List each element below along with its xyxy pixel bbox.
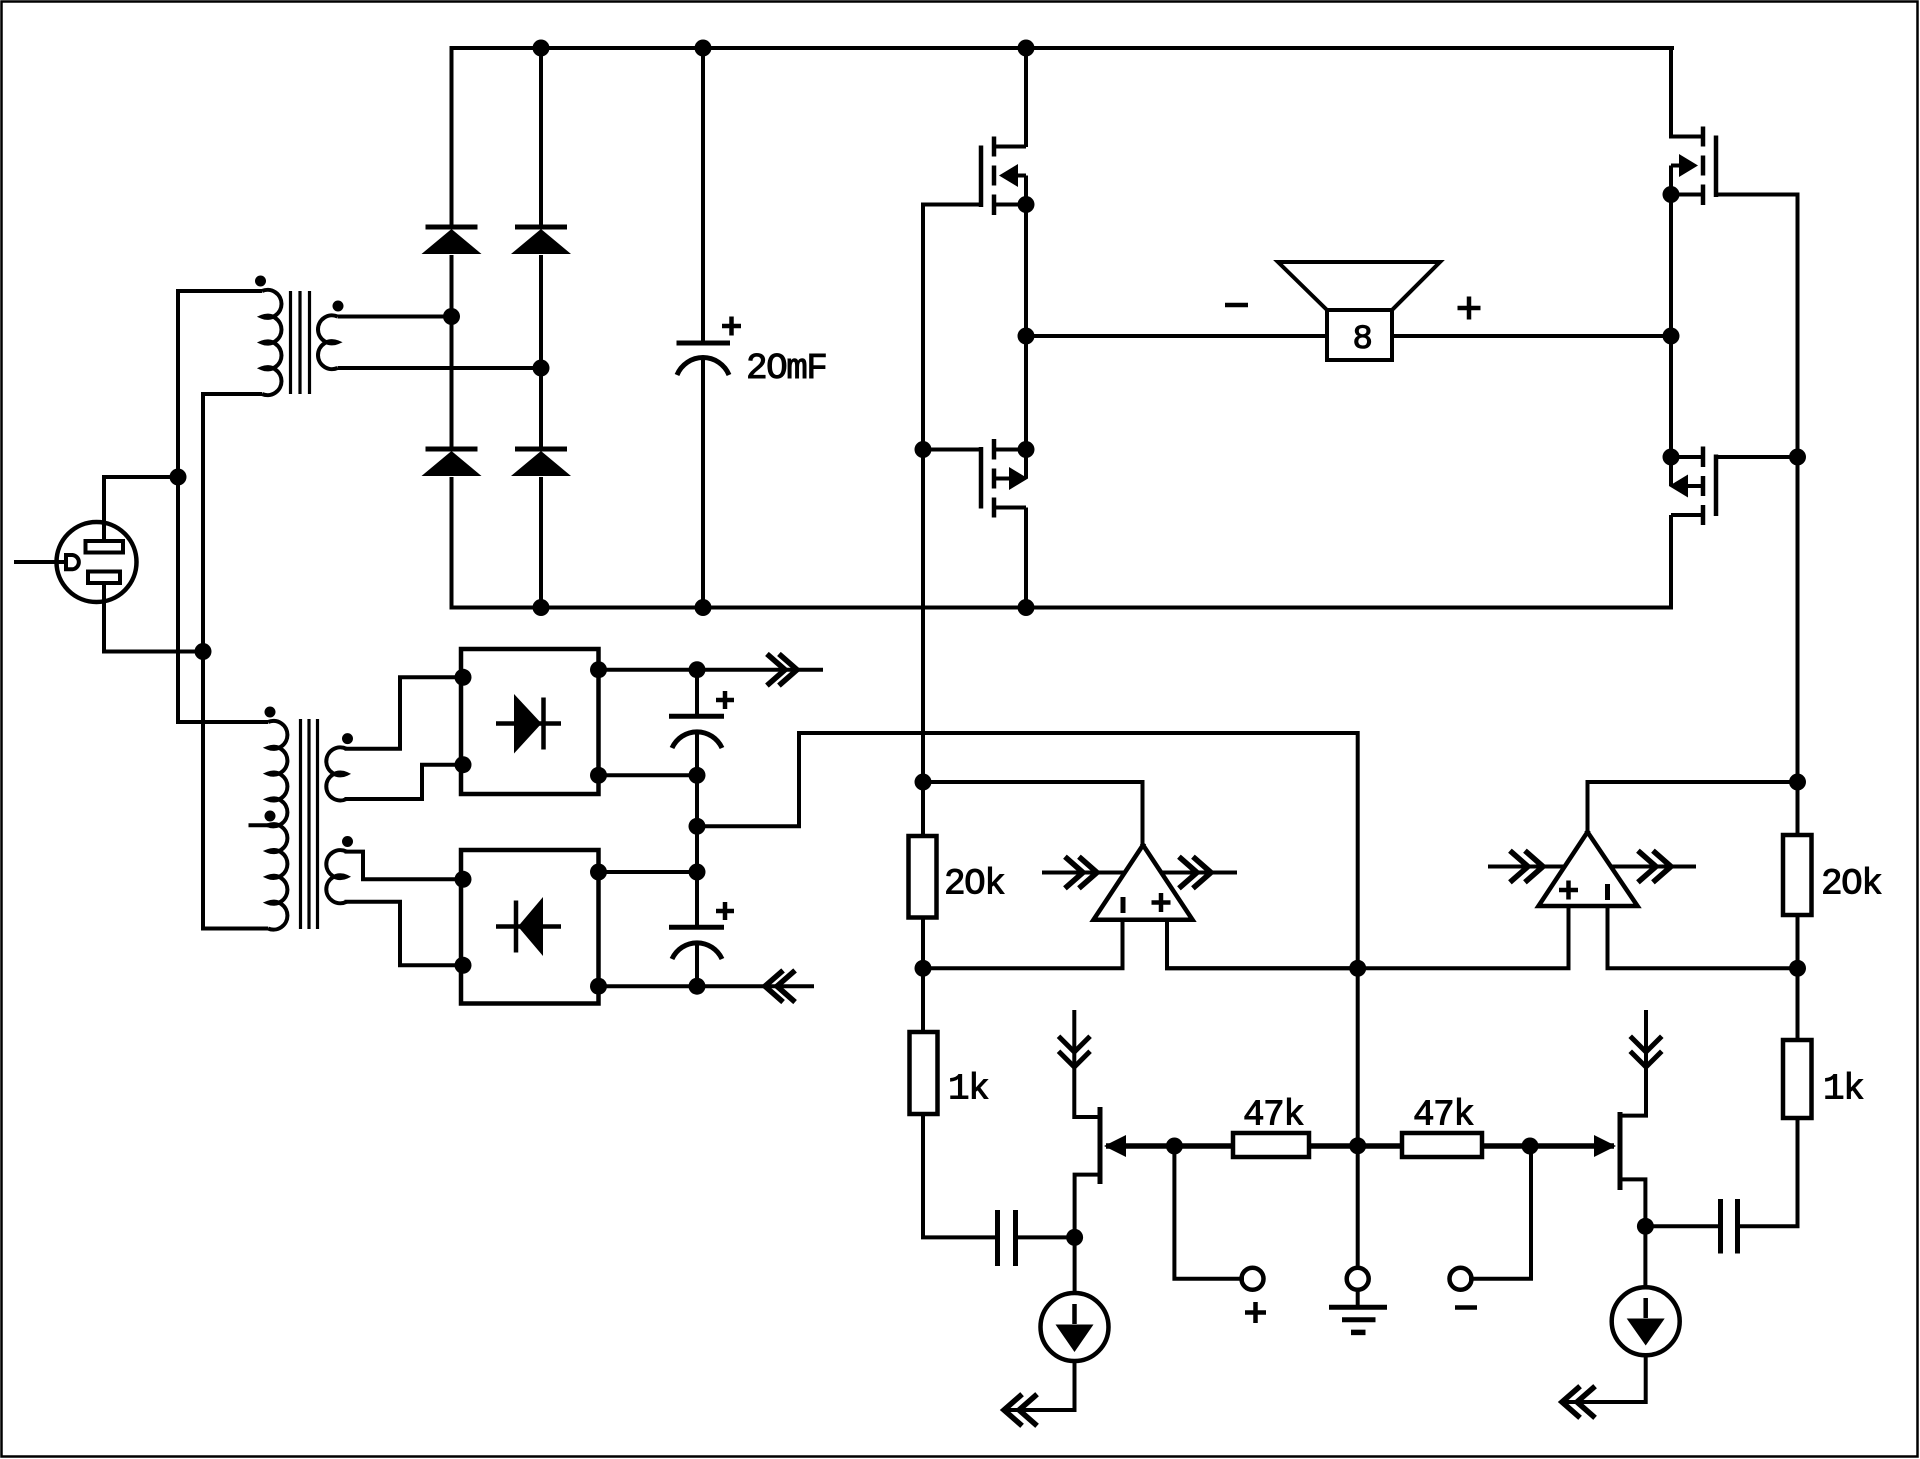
- junction Q1 collector node: [1066, 1229, 1083, 1246]
- wire M4 drain to -V bus: [1669, 515, 1673, 610]
- capacitor C1 plus mark: [722, 317, 741, 336]
- wire U2 noninverting input pin: [1167, 906, 1569, 968]
- wire 47k right to Q2 base: [1482, 1143, 1530, 1149]
- AC plug J1 body: [57, 522, 137, 602]
- label speaker minus: [1225, 303, 1248, 308]
- wire C2 top lead: [695, 670, 699, 717]
- junction on -V bus at left half-bridge: [1018, 599, 1035, 616]
- wire +15 supply arrow: [697, 668, 823, 672]
- junction right comparator input node: [1789, 960, 1806, 977]
- transistor M1 top-left NMOS: [981, 137, 1026, 216]
- svg-text:47k: 47k: [1413, 1095, 1473, 1136]
- bridge rectifier BR1 box: [461, 649, 599, 794]
- speaker LS1 8-ohm box: [1327, 310, 1392, 360]
- current source I2: [1612, 1287, 1680, 1355]
- terminal ground: [1347, 1268, 1369, 1290]
- BR1 pin + out: [590, 661, 607, 678]
- diode D2 (upper right of main bridge): [511, 227, 571, 254]
- junction ground rail at comparator rail: [1349, 960, 1366, 977]
- wire left rail to coupling cap: [923, 1114, 996, 1237]
- U2 minus input mark: [1605, 884, 1610, 900]
- resistor R4 1k right: [1783, 1040, 1812, 1118]
- wire U1 inverting input pin: [923, 920, 1123, 969]
- junction Q2 collector node: [1637, 1218, 1654, 1235]
- Q1 base arrow: [1104, 1135, 1174, 1157]
- transistor Q1 left bar: [1098, 1107, 1103, 1184]
- junction PSU mid tap: [689, 818, 706, 835]
- U1 minus input mark: [1121, 897, 1126, 913]
- wire I2 return with chevrons: [1562, 1355, 1646, 1416]
- wire center to 47k right: [1358, 1143, 1402, 1149]
- capacitor C5 right coupling plates: [1721, 1199, 1738, 1254]
- U1 input arrow: [1042, 859, 1125, 887]
- junction on +V bus at 20mF cap: [695, 40, 712, 57]
- transistor Q2 right bar: [1618, 1112, 1623, 1190]
- transformer T1 secondary winding: [318, 315, 337, 369]
- supply arrow -15 chevrons: [765, 972, 793, 1000]
- transformer T2 primary winding: [178, 721, 287, 930]
- BR2 diode symbol: [496, 897, 561, 956]
- wire right gate rail: [1796, 193, 1800, 836]
- transformer T2 primary polarity dot top: [265, 707, 276, 718]
- junction Q2 base node: [1522, 1138, 1539, 1155]
- wire speaker line right: [1392, 334, 1671, 338]
- BR1 pin - out: [590, 767, 607, 784]
- wire BR1 + output: [599, 668, 698, 672]
- capacitor C3 plates: [669, 927, 724, 959]
- wire plug neutral prong: [104, 583, 203, 652]
- label R1 20k: [944, 864, 1004, 905]
- resistor R1 20k left: [909, 836, 937, 918]
- wire Q2 emitter with supply chevron: [1622, 1012, 1660, 1116]
- Q2 base arrow: [1530, 1135, 1616, 1157]
- op-amp U2 right comparator: [1539, 832, 1638, 906]
- capacitor C3 plus mark: [716, 902, 734, 920]
- transistor M3 top-right NMOS: [1671, 127, 1716, 206]
- wire Q1 base to 47k: [1174, 1143, 1233, 1149]
- resistor R3 20k right: [1783, 835, 1812, 915]
- wire bottom -V bus: [452, 606, 1672, 610]
- diode D3 (lower left of main bridge): [422, 449, 482, 476]
- junction M3 source: [1663, 186, 1680, 203]
- junction BR2 + node: [689, 864, 706, 881]
- speaker LS1 cone: [1278, 262, 1440, 310]
- wire M3 gate: [1718, 193, 1798, 197]
- wire 20mF cap bottom lead: [701, 358, 705, 608]
- wire U2 feedback: [1588, 782, 1798, 832]
- svg-text:8: 8: [1353, 321, 1372, 359]
- BR2 pin AC bottom: [455, 957, 472, 974]
- label R5 47k: [1243, 1095, 1303, 1136]
- wire T2 sec2 top to bridge: [347, 852, 462, 880]
- junction on +V bus at diode column 2: [533, 40, 550, 57]
- transformer T2 secondary 1 polarity dot: [342, 733, 353, 744]
- capacitor C2 plates: [669, 716, 724, 748]
- wire M1 drain to +V bus: [1024, 48, 1028, 147]
- label R2 1k: [948, 1069, 988, 1110]
- terminal + input: [1242, 1268, 1264, 1290]
- junction plug hot: [170, 469, 187, 486]
- junction left feedback node: [915, 774, 932, 791]
- wire T1 secondary bottom to AC2: [338, 366, 542, 370]
- wire AC plug ground stub: [14, 560, 66, 564]
- svg-text:47k: 47k: [1243, 1095, 1303, 1136]
- node AC1 on column 1: [443, 308, 460, 325]
- label + input: [1245, 1302, 1266, 1323]
- diode D4 (lower right of main bridge): [511, 449, 571, 476]
- junction on +V bus at left half-bridge: [1018, 40, 1035, 57]
- BR2 pin AC top: [455, 871, 472, 888]
- wire T2 sec2 bottom to bridge: [347, 902, 462, 966]
- wire diode column 1 middle: [450, 255, 454, 449]
- junction M4 gate on gate rail: [1789, 449, 1806, 466]
- BR1 pin AC top: [455, 669, 472, 686]
- op-amp U1 left comparator: [1094, 845, 1193, 920]
- wire diode column 2 lower: [539, 477, 543, 608]
- wire U2 inverting input pin: [1608, 906, 1798, 968]
- junction -15 node: [689, 978, 706, 995]
- junction +15 node: [689, 661, 706, 678]
- BR2 pin + out: [590, 864, 607, 881]
- resistor R5 47k left: [1233, 1133, 1309, 1157]
- wire C3 top lead: [695, 872, 699, 927]
- label R6 47k: [1413, 1095, 1473, 1136]
- wire + input terminal: [1174, 1146, 1242, 1279]
- junction Q1 base node: [1166, 1138, 1183, 1155]
- wire diode column 1 lower: [450, 477, 454, 610]
- wire C2 bottom lead: [695, 731, 699, 775]
- junction right feedback node: [1789, 774, 1806, 791]
- wire U1 feedback: [923, 782, 1143, 845]
- svg-text:1k: 1k: [948, 1069, 988, 1110]
- svg-text:2Ok: 2Ok: [1821, 864, 1881, 905]
- AC plug ground pin: [66, 555, 79, 569]
- wire M4 gate: [1718, 455, 1798, 459]
- transformer T2 primary polarity dot mid: [265, 811, 276, 822]
- wire Q1 emitter with supply chevron: [1060, 1012, 1098, 1117]
- capacitor C4 left coupling plates: [998, 1210, 1016, 1266]
- node AC2 on column 2: [533, 360, 550, 377]
- junction M2 gate on gate rail: [915, 441, 932, 458]
- terminal - input: [1450, 1268, 1472, 1290]
- BR1 pin AC bottom: [455, 756, 472, 773]
- diode D1 (upper left of main bridge): [422, 227, 482, 254]
- BR1 diode symbol: [496, 694, 561, 754]
- U2 input arrow: [1488, 853, 1565, 881]
- junction C2 bottom: [689, 767, 706, 784]
- capacitor C2 plus mark: [716, 691, 734, 709]
- capacitor C1 20mF plates: [677, 343, 731, 375]
- junction M4 source: [1663, 449, 1680, 466]
- wire to current source I1: [1073, 1237, 1077, 1293]
- wire ground rail lower: [1356, 968, 1360, 1146]
- wire right rail mid: [1796, 915, 1800, 1040]
- ground symbol: [1329, 1290, 1387, 1333]
- svg-text:2OmF: 2OmF: [746, 348, 826, 389]
- junction M1 source: [1018, 196, 1035, 213]
- wire plug hot prong: [104, 477, 178, 541]
- transformer T1 secondary polarity dot: [333, 301, 344, 312]
- junction plug neutral: [195, 643, 212, 660]
- wire M2 gate: [923, 448, 981, 452]
- wire T2 sec1 bottom to bridge: [347, 765, 462, 799]
- wire M3 drain to +V bus: [1671, 48, 1672, 137]
- wire U1 noninverting input pin: [1167, 920, 1358, 969]
- junction ground rail at 47k node: [1349, 1137, 1366, 1154]
- wire C4 to collector node: [1016, 1235, 1075, 1239]
- wire diode column 1 upper: [450, 46, 454, 227]
- wire right output node: [1669, 195, 1673, 458]
- transistor M4 bottom-right: [1669, 447, 1716, 526]
- svg-text:2Ok: 2Ok: [944, 864, 1004, 905]
- BR2 pin - out: [590, 978, 607, 995]
- wire diode column 2 middle: [539, 255, 543, 449]
- transformer T2 primary center tap stub: [249, 823, 269, 827]
- wire C5 to collector node: [1645, 1224, 1718, 1228]
- transformer T2 secondary 2 polarity dot: [342, 836, 353, 847]
- wire 20mF cap top lead: [701, 48, 705, 343]
- wire I1 return with chevrons: [1004, 1361, 1075, 1424]
- junction left output to speaker: [1018, 328, 1035, 345]
- label R4 1k: [1823, 1069, 1863, 1110]
- label - input: [1455, 1305, 1477, 1310]
- AC plug bottom prong: [88, 572, 120, 584]
- wire BR2 + output: [599, 870, 698, 874]
- wire BR2 - output: [599, 984, 698, 988]
- bridge rectifier BR2 box: [461, 850, 599, 1004]
- junction M2 source: [1018, 441, 1035, 458]
- wire right rail to coupling cap: [1740, 1118, 1798, 1226]
- U2 output arrow: [1610, 853, 1696, 881]
- junction left comparator input node: [915, 960, 932, 977]
- junction on -V bus at diode column 2: [533, 599, 550, 616]
- wire diode column 2 upper: [539, 48, 543, 227]
- label 8 ohms: [1353, 321, 1372, 359]
- current source I1: [1041, 1293, 1109, 1361]
- wire top +V bus: [452, 46, 1673, 50]
- wire BR1 - output: [599, 773, 698, 777]
- AC plug top prong: [86, 541, 124, 553]
- transformer T2 secondary 1 winding: [326, 747, 346, 800]
- wire -15 supply arrow: [697, 984, 814, 988]
- label R3 20k: [1821, 864, 1881, 905]
- wire mains line right: [201, 392, 205, 931]
- wire Q1 collector: [1075, 1175, 1098, 1238]
- transformer T2 secondary 2 winding: [326, 850, 346, 903]
- wire M2 drain to -V bus: [1024, 508, 1028, 608]
- junction on -V bus at 20mF cap: [695, 599, 712, 616]
- transistor M2 bottom-left: [981, 439, 1028, 518]
- wire to current source I2: [1643, 1226, 1647, 1287]
- supply arrow +15 chevrons: [769, 656, 797, 684]
- wire - input terminal: [1471, 1146, 1531, 1279]
- label 20mF: [746, 348, 826, 389]
- label speaker plus: [1458, 297, 1481, 320]
- wire ground rail to terminal: [1356, 1146, 1360, 1269]
- transformer T2 core: [301, 719, 318, 929]
- transformer T1 primary winding: [178, 290, 281, 395]
- U2 plus input mark: [1559, 881, 1578, 900]
- wire speaker line left: [1026, 334, 1327, 338]
- U1 output arrow: [1161, 859, 1237, 887]
- wire PSU mid node: [695, 775, 699, 872]
- wire Q2 collector: [1622, 1179, 1645, 1226]
- wire T1 secondary top to AC1: [338, 315, 452, 319]
- wire left rail mid: [921, 918, 925, 1033]
- svg-text:1k: 1k: [1823, 1069, 1863, 1110]
- wire M1 gate: [923, 203, 981, 207]
- resistor R2 1k left: [910, 1032, 938, 1114]
- transformer T1 core: [291, 291, 310, 394]
- wire 47k left to center: [1309, 1143, 1358, 1149]
- transformer T1 primary polarity dot: [255, 276, 266, 287]
- wire T2 sec1 top to bridge: [347, 677, 462, 749]
- wire mid tap to ground rail: [697, 733, 1358, 968]
- U1 plus input mark: [1152, 893, 1171, 912]
- wire left output node: [1024, 205, 1028, 450]
- junction right output to speaker: [1663, 328, 1680, 345]
- resistor R6 47k right: [1402, 1133, 1482, 1157]
- wire left gate rail: [921, 203, 925, 837]
- wire C3 bottom lead: [695, 942, 699, 986]
- wire mains line left: [176, 289, 180, 724]
